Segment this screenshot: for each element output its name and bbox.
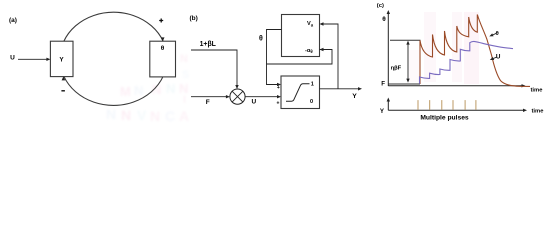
svg-text:F: F (206, 99, 210, 106)
svg-text:Y: Y (59, 56, 64, 63)
wire -alpha return (267, 50, 333, 65)
svg-text:N: N (150, 108, 160, 124)
svg-text:Va: Va (307, 21, 314, 27)
svg-text:C: C (165, 108, 175, 124)
svg-text:U: U (10, 55, 15, 62)
U pointer arrow and label (490, 54, 501, 61)
arrowhead into theta box top (161, 37, 165, 41)
peak reference line (390, 39, 421, 41)
svg-text:+: + (277, 100, 280, 106)
pulse ticks (418, 100, 476, 110)
svg-text:V: V (137, 107, 147, 123)
svg-text:time: time (532, 109, 545, 115)
svg-text:N: N (180, 53, 188, 65)
svg-text:time: time (531, 87, 544, 93)
svg-text:F: F (381, 81, 385, 88)
svg-text:θ: θ (259, 35, 263, 42)
svg-text:Multiple pulses: Multiple pulses (420, 114, 469, 121)
svg-text:θ: θ (496, 31, 499, 37)
wire theta tap down to saturation (267, 30, 282, 85)
saturation box (281, 76, 320, 109)
svg-text:(c): (c) (377, 3, 384, 9)
svg-text:θ: θ (382, 16, 386, 23)
svg-text:Y: Y (352, 93, 357, 100)
wire from 1+betaL to multiplier (191, 50, 237, 86)
input U (10, 55, 50, 62)
comparator box (282, 15, 320, 57)
svg-text:-αθ: -αθ (305, 48, 313, 54)
svg-text:θ: θ (161, 45, 165, 52)
wire U multiplier to saturation (245, 95, 281, 106)
time axis horizontal (388, 84, 543, 93)
svg-text:(b): (b) (190, 15, 198, 22)
svg-text:N: N (121, 107, 131, 123)
theta pointer arrow and label (489, 31, 498, 37)
pink tint bands in panel c (409, 12, 479, 84)
minus sign (61, 90, 65, 91)
input F wire (191, 95, 230, 106)
plus sign (159, 19, 163, 23)
svg-text:U: U (496, 54, 501, 61)
feedback loop ellipse (60, 12, 167, 105)
multiplier circle (230, 89, 245, 104)
svg-text:N: N (166, 81, 175, 96)
lower Y axis (380, 98, 544, 115)
U curve (blue staircase) (420, 41, 514, 83)
svg-text:I: I (183, 94, 186, 106)
F baseline segment (388, 83, 420, 85)
svg-text:0: 0 (310, 99, 313, 105)
svg-text:+: + (277, 85, 280, 91)
measure double arrow (406, 41, 409, 83)
wire Va feedback from output (323, 24, 338, 89)
theta axis vertical (382, 10, 390, 86)
block Y (50, 41, 73, 76)
svg-text:(a): (a) (9, 17, 17, 24)
svg-text:1: 1 (311, 82, 314, 88)
svg-text:N: N (106, 106, 116, 122)
output Y wire (320, 87, 363, 100)
svg-text:1+βL: 1+βL (200, 41, 216, 48)
svg-text:A: A (179, 108, 189, 124)
svg-text:N: N (134, 83, 143, 98)
svg-text:U: U (251, 99, 256, 106)
theta curve (red-brown) (420, 15, 530, 87)
svg-text:S: S (182, 69, 189, 81)
svg-text:ηβF: ηβF (391, 66, 402, 72)
svg-text:M: M (120, 84, 131, 99)
arrowhead into Y box bottom (62, 76, 66, 80)
block theta (150, 41, 176, 77)
